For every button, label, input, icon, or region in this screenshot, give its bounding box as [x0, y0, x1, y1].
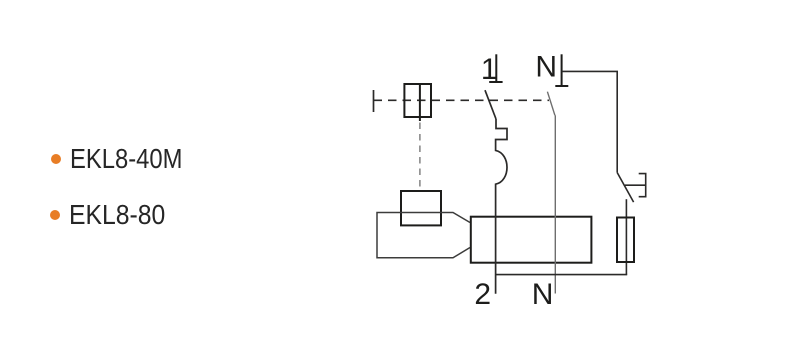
svg-text:N: N — [535, 51, 557, 84]
svg-text:N: N — [532, 278, 554, 311]
svg-text:2: 2 — [474, 278, 491, 311]
svg-text:1: 1 — [481, 53, 498, 86]
